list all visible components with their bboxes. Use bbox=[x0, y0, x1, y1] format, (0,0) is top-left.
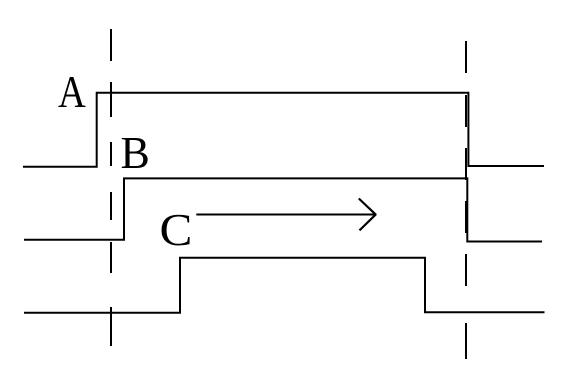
t2 dash 3 bbox=[465, 148, 467, 180]
t1 dash 3 bbox=[110, 142, 112, 166]
t2 dash 4 bbox=[465, 201, 467, 233]
arrowhead lower barb bbox=[360, 214, 377, 230]
arrowhead upper barb bbox=[359, 199, 376, 215]
t1 dash 6 bbox=[110, 307, 112, 346]
svg-text:A: A bbox=[58, 66, 86, 117]
t2 dash 1 bbox=[465, 41, 467, 73]
svg-text:C: C bbox=[160, 204, 193, 255]
t1 dash 4 bbox=[110, 192, 112, 220]
dashed vertical marker line t2 (right cursor, x=466) bbox=[465, 41, 467, 359]
wire: signal B waveform trace (low, rising edge, high, falling edge, low) bbox=[24, 178, 542, 241]
dashed vertical marker line t1 (left cursor, x=111) bbox=[110, 29, 112, 346]
svg-text:B: B bbox=[121, 127, 150, 178]
t2 dash 6 bbox=[465, 323, 467, 359]
t1 dash 5 bbox=[110, 242, 112, 273]
arrow (time direction indicator) bbox=[196, 199, 376, 231]
arrow shaft bbox=[196, 214, 375, 216]
t2 dash 5 bbox=[465, 254, 467, 286]
t1 dash 1 bbox=[110, 29, 112, 61]
wire: signal C waveform trace (low, rising edge, high, falling edge, low) bbox=[24, 258, 545, 313]
wire: signal A waveform trace (low, rising edge, high, falling edge, low) bbox=[23, 93, 544, 167]
t2 dash 2 bbox=[465, 95, 467, 127]
t1 dash 2 bbox=[110, 82, 112, 117]
